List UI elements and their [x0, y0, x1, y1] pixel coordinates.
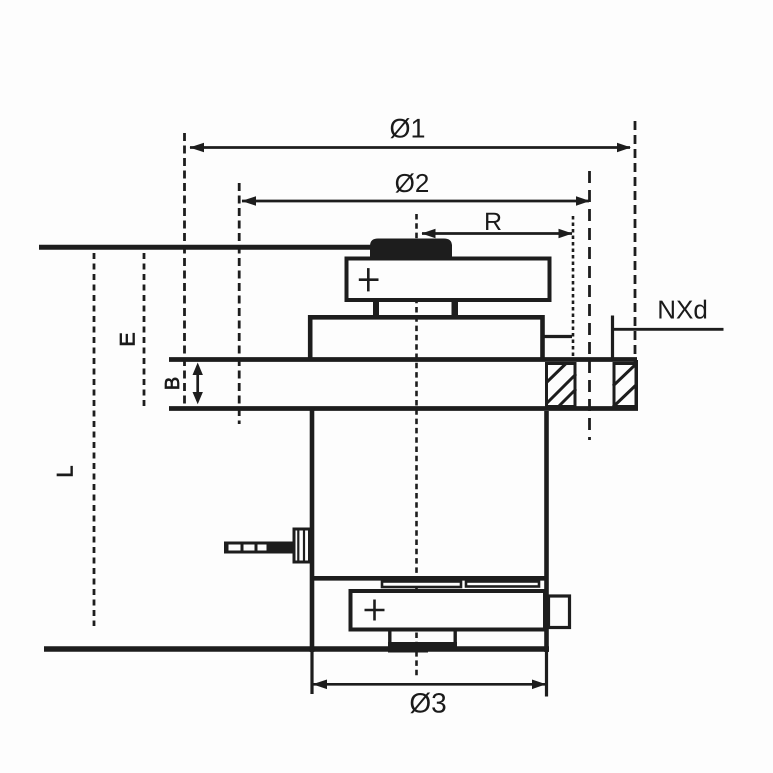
dimension Ø1 line — [190, 146, 630, 149]
node Ø1 right extension line (dashed) — [634, 121, 637, 362]
terminal box U2 right extension — [549, 596, 570, 628]
node plug slot 3 — [258, 545, 267, 551]
wire: terminal box stub left — [373, 301, 379, 316]
svg-text:Ø2: Ø2 — [395, 168, 430, 198]
wire: terminal box stub right — [452, 301, 459, 316]
node Ø1 left extension line (dashed) — [183, 133, 186, 404]
node bolt circle center line (dash-dot) — [588, 171, 591, 440]
node shaft step below lower box right wall — [454, 630, 457, 647]
node mount block inner line 2 — [303, 528, 305, 563]
dimension B double arrow — [196, 366, 199, 401]
dimension Ø3 line — [313, 683, 545, 686]
terminal box U2 (lower, with +) — [351, 591, 546, 630]
connector J1 black plug bar — [224, 542, 293, 554]
node NXd hole tick — [611, 316, 614, 362]
lower motor body right edge — [544, 411, 549, 652]
node fan cover tab right — [466, 582, 539, 587]
dimension R line — [422, 232, 572, 235]
node shaft end black bar small — [428, 642, 457, 649]
wire: long upper horizontal line (shaft-end face) — [39, 245, 452, 250]
node fan cover tab left — [382, 582, 461, 588]
node Ø3 left extension — [310, 652, 313, 694]
svg-text:E: E — [116, 332, 140, 346]
svg-text:L: L — [53, 465, 78, 477]
terminal box U1 (upper, with +) — [347, 259, 550, 301]
connector J1 mount block — [294, 529, 310, 562]
node shaft end black bar — [388, 642, 428, 653]
upper motor body left edge — [308, 315, 313, 361]
flange top line — [169, 357, 637, 362]
wire: long lower horizontal line (rear face) — [44, 646, 549, 652]
node L extension line (dashed) — [93, 253, 96, 626]
dimension Ø2 line — [242, 200, 589, 203]
lower motor body step line — [311, 576, 547, 581]
flange hatched section left of hole — [546, 364, 576, 409]
node plus mark upper — [359, 278, 379, 281]
upper motor body right edge — [540, 315, 545, 361]
node plug slot 2 — [244, 545, 255, 551]
node E extension line (dashed) — [143, 253, 146, 410]
capacitor cap: black cover on terminal box — [370, 239, 452, 261]
lower motor body left edge — [310, 408, 315, 652]
node R right extension line (dotted) — [572, 216, 575, 360]
node Ø3 right extension — [545, 652, 548, 697]
node plus mark lower — [365, 609, 385, 612]
node shaft step below lower box left wall — [388, 630, 391, 647]
upper motor body top — [308, 315, 544, 320]
node plug slot 1 — [229, 545, 241, 551]
svg-text:B: B — [162, 377, 184, 390]
wire NXd leader line — [613, 328, 724, 331]
node Ø2 left extension line (dashed) — [238, 183, 241, 424]
svg-text:Ø3: Ø3 — [409, 687, 446, 718]
flange bottom line — [169, 406, 638, 411]
svg-text:R: R — [484, 208, 502, 236]
svg-text:Ø1: Ø1 — [389, 113, 425, 143]
svg-text:NXd: NXd — [657, 294, 708, 324]
flange right edge — [634, 360, 638, 410]
node motor center line (dotted) — [415, 214, 418, 676]
flange hatched section right of hole — [613, 364, 636, 408]
upper motor body right step — [544, 335, 572, 338]
node mount block inner line 1 — [297, 528, 299, 563]
